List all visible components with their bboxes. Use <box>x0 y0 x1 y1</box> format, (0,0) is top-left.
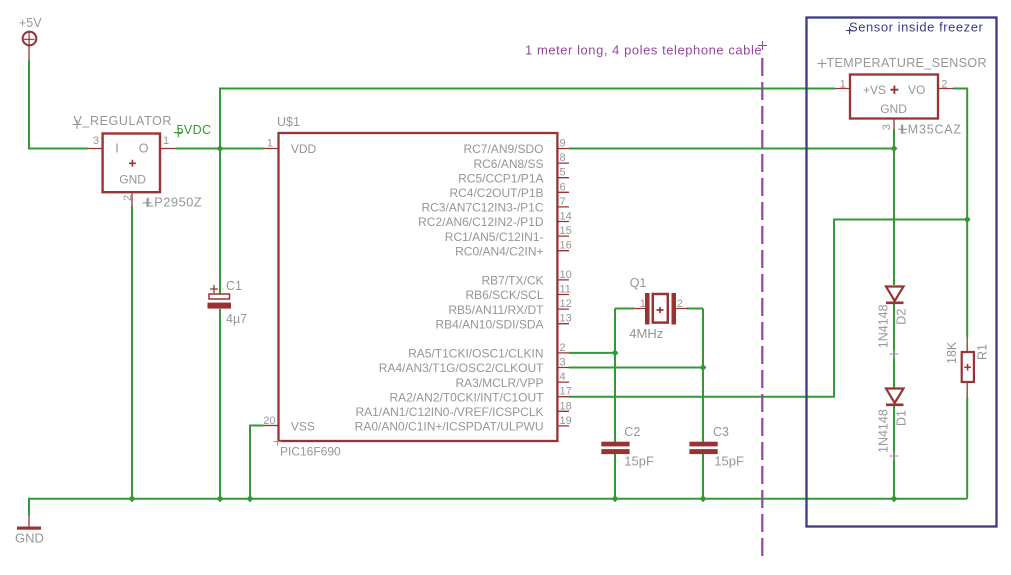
svg-text:15pF: 15pF <box>624 454 654 469</box>
svg-text:V_REGULATOR: V_REGULATOR <box>74 114 173 128</box>
svg-text:18: 18 <box>560 400 572 412</box>
svg-text:RC6/AN8/SS: RC6/AN8/SS <box>473 157 543 171</box>
svg-text:RA2/AN2/T0CKI/INT/C1OUT: RA2/AN2/T0CKI/INT/C1OUT <box>389 390 544 404</box>
svg-text:RA4/AN3/T1G/OSC2/CLKOUT: RA4/AN3/T1G/OSC2/CLKOUT <box>379 361 544 375</box>
svg-text:4: 4 <box>560 371 566 383</box>
svg-text:C2: C2 <box>624 425 640 439</box>
svg-text:C3: C3 <box>713 425 729 439</box>
svg-text:Q1: Q1 <box>630 276 647 290</box>
svg-text:RA0/AN0/C1IN+/ICSPDAT/ULPWU: RA0/AN0/C1IN+/ICSPDAT/ULPWU <box>355 420 544 434</box>
svg-text:2: 2 <box>941 78 947 90</box>
svg-text:RC4/C2OUT/P1B: RC4/C2OUT/P1B <box>449 186 543 200</box>
svg-text:3: 3 <box>560 357 566 369</box>
svg-text:+VS: +VS <box>863 83 886 97</box>
svg-text:1N4148: 1N4148 <box>877 409 891 453</box>
svg-text:RC7/AN9/SDO: RC7/AN9/SDO <box>463 142 543 156</box>
svg-text:1 meter long, 4 poles telephon: 1 meter long, 4 poles telephone cable <box>525 43 762 58</box>
svg-text:LM35CAZ: LM35CAZ <box>900 123 962 137</box>
svg-text:RA5/T1CKI/OSC1/CLKIN: RA5/T1CKI/OSC1/CLKIN <box>408 347 543 361</box>
svg-text:U$1: U$1 <box>277 115 300 129</box>
svg-text:D1: D1 <box>895 410 909 426</box>
svg-text:TEMPERATURE_SENSOR: TEMPERATURE_SENSOR <box>827 56 987 70</box>
svg-text:GND: GND <box>15 531 44 546</box>
svg-text:4MHz: 4MHz <box>629 326 663 341</box>
svg-text:RC2/AN6/C12IN2-/P1D: RC2/AN6/C12IN2-/P1D <box>418 215 544 229</box>
svg-text:1: 1 <box>640 298 646 310</box>
svg-text:3: 3 <box>93 135 99 147</box>
svg-text:15pF: 15pF <box>714 454 744 469</box>
svg-text:15: 15 <box>560 225 572 237</box>
svg-text:4µ7: 4µ7 <box>226 312 247 326</box>
svg-text:9: 9 <box>560 138 566 150</box>
svg-text:7: 7 <box>560 196 566 208</box>
svg-text:2: 2 <box>560 342 566 354</box>
svg-text:RA1/AN1/C12IN0-/VREF/ICSPCLK: RA1/AN1/C12IN0-/VREF/ICSPCLK <box>355 405 543 419</box>
svg-text:2: 2 <box>677 298 683 310</box>
svg-text:11: 11 <box>560 284 571 296</box>
svg-text:19: 19 <box>560 415 572 427</box>
svg-text:C1: C1 <box>226 279 242 293</box>
svg-text:18K: 18K <box>945 341 959 364</box>
svg-text:GND: GND <box>119 173 146 187</box>
svg-text:RC3/AN7C12IN3-/P1C: RC3/AN7C12IN3-/P1C <box>421 201 543 215</box>
svg-text:8: 8 <box>560 152 566 164</box>
svg-text:RC0/AN4/C2IN+: RC0/AN4/C2IN+ <box>455 244 543 258</box>
svg-text:13: 13 <box>560 313 572 325</box>
svg-text:1: 1 <box>840 78 846 90</box>
svg-text:LP2950Z: LP2950Z <box>147 194 203 209</box>
svg-text:RA3/MCLR/VPP: RA3/MCLR/VPP <box>455 376 543 390</box>
svg-text:RC1/AN5/C12IN1-: RC1/AN5/C12IN1- <box>445 230 544 244</box>
svg-text:GND: GND <box>880 102 907 116</box>
svg-text:VO: VO <box>908 83 925 97</box>
svg-text:17: 17 <box>560 386 572 398</box>
svg-text:RB5/AN11/RX/DT: RB5/AN11/RX/DT <box>448 303 544 317</box>
svg-text:D2: D2 <box>895 309 909 325</box>
svg-text:Sensor inside freezer: Sensor inside freezer <box>849 20 984 35</box>
svg-text:O: O <box>139 141 149 155</box>
svg-text:3: 3 <box>881 124 893 130</box>
svg-text:2: 2 <box>122 195 134 201</box>
svg-text:1N4148: 1N4148 <box>877 304 891 348</box>
svg-text:12: 12 <box>560 298 572 310</box>
svg-text:5: 5 <box>560 167 566 179</box>
svg-text:RB4/AN10/SDI/SDA: RB4/AN10/SDI/SDA <box>435 317 543 331</box>
svg-text:R1: R1 <box>976 344 990 360</box>
svg-text:RC5/CCP1/P1A: RC5/CCP1/P1A <box>458 171 543 185</box>
svg-text:RB6/SCK/SCL: RB6/SCK/SCL <box>465 288 543 302</box>
svg-text:I: I <box>115 141 118 155</box>
svg-text:+5V: +5V <box>19 16 42 30</box>
svg-text:PIC16F690: PIC16F690 <box>280 445 341 459</box>
svg-text:5VDC: 5VDC <box>177 123 212 137</box>
svg-text:1: 1 <box>163 135 169 147</box>
svg-text:RB7/TX/CK: RB7/TX/CK <box>481 274 543 288</box>
svg-text:14: 14 <box>560 211 572 223</box>
svg-text:VDD: VDD <box>291 142 317 156</box>
svg-text:6: 6 <box>560 181 566 193</box>
svg-text:20: 20 <box>263 415 275 427</box>
svg-text:16: 16 <box>560 240 572 252</box>
svg-text:VSS: VSS <box>291 420 315 434</box>
svg-text:10: 10 <box>560 269 572 281</box>
svg-text:1: 1 <box>267 138 273 150</box>
